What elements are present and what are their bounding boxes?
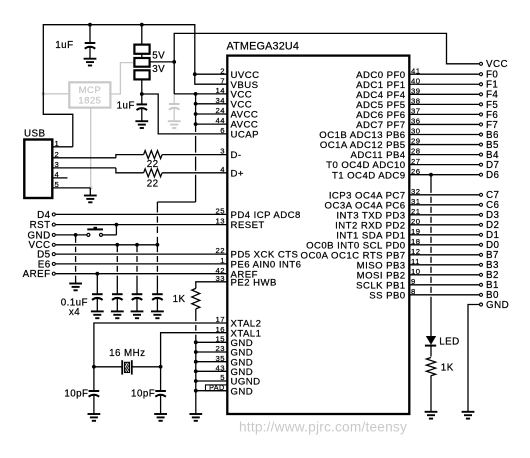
ground GND breakout [69, 283, 82, 285]
svg-text:1K: 1K [441, 363, 454, 374]
pin 31 OC3A OC4A PC6 U1 / node C6 [409, 204, 479, 206]
wire XTAL2 [94, 323, 227, 367]
wire MCP1825 VIN (ghost) [43, 93, 69, 95]
wire stub 24 [196, 113, 228, 115]
svg-text:GND: GND [231, 386, 254, 397]
svg-text:9: 9 [411, 277, 416, 286]
svg-text:1K: 1K [173, 294, 186, 305]
svg-text:5V: 5V [152, 50, 165, 61]
svg-text:28: 28 [411, 147, 420, 156]
node D5 breakout [52, 253, 55, 256]
LED D1 [426, 336, 436, 345]
ground C3 [91, 310, 104, 312]
node GND rail 43 [194, 369, 198, 373]
svg-text:PE2 HWB: PE2 HWB [231, 277, 277, 288]
svg-text:1825: 1825 [78, 95, 101, 106]
node GND rail 15 [194, 340, 198, 344]
pad 3V (bottom) [134, 70, 149, 79]
wire R3 top [196, 282, 228, 289]
svg-text:14: 14 [216, 86, 226, 95]
ground C8 [154, 413, 167, 415]
svg-text:20: 20 [411, 217, 420, 226]
ground C1 [84, 58, 97, 60]
wire D+ jog [116, 168, 144, 173]
svg-text:21: 21 [411, 207, 420, 216]
wire MCP1825 VOUT to 3V pad (ghost) [110, 63, 133, 94]
svg-text:http://www.pjrc.com/teensy: http://www.pjrc.com/teensy [239, 420, 407, 435]
svg-text:D-: D- [231, 150, 242, 161]
wire stub PAD [196, 390, 228, 392]
node rail 34 [194, 102, 198, 106]
pin 32 ICP3 OC4A PC7 U1 / node C7 [409, 194, 479, 196]
svg-text:37: 37 [411, 107, 420, 116]
node VCC cap2 tap [115, 243, 119, 247]
pin 29 OC1A ADC12 PB5 U1 / node B5 [409, 144, 479, 146]
wire VCC row left [56, 244, 158, 246]
node MCP VIN tap (ghost) [42, 92, 46, 96]
wire UCAP [142, 94, 228, 134]
pin 18 OC0B INT0 SCL PD0 U1 / node D0 [409, 244, 479, 246]
svg-text:10pF: 10pF [64, 389, 88, 400]
node XTAL1 junction [159, 365, 163, 369]
resistor R3 1K [192, 288, 200, 309]
ground C6 [151, 310, 164, 312]
node VCC cap3 tap [135, 243, 139, 247]
wire stub 43 [196, 370, 228, 372]
wire 5V pad lead [141, 25, 143, 45]
capacitor C6 0.1uF [152, 293, 163, 295]
wire VCC output [150, 61, 175, 63]
svg-text:1uF: 1uF [117, 101, 135, 112]
wire GND row [56, 234, 87, 236]
ground LED chain [425, 411, 438, 413]
svg-text:26: 26 [411, 167, 420, 176]
node AREF cap tap [95, 272, 99, 276]
svg-text:RESET: RESET [231, 220, 265, 231]
svg-text:41: 41 [411, 66, 420, 75]
node GND breakout [52, 233, 55, 236]
pin PAD GND U1 [206, 385, 228, 391]
wire stub 34 [196, 103, 228, 105]
svg-text:44: 44 [216, 116, 226, 125]
svg-text:MCP: MCP [79, 85, 102, 96]
ground C4 [111, 310, 124, 312]
svg-text:18: 18 [411, 237, 420, 246]
svg-text:40: 40 [411, 76, 420, 85]
capacitor C3 0.1uF [92, 293, 103, 295]
node C2 junction [140, 92, 144, 96]
resistor R2 22 [144, 169, 163, 177]
wire VCC rail [195, 94, 197, 132]
svg-text:D+: D+ [231, 168, 244, 179]
wire GND rail [195, 342, 197, 414]
wire VCC riser [156, 202, 158, 212]
svg-text:7: 7 [220, 76, 225, 85]
svg-text:VCC: VCC [486, 59, 508, 70]
pad 5V (top) [134, 45, 149, 54]
node D4 breakout [52, 213, 55, 216]
pin 19 INT1 SDA PD1 U1 / node D1 [409, 234, 479, 236]
pin 39 ADC4 PF4 U1 / node F4 [409, 93, 479, 95]
svg-text:22: 22 [147, 159, 159, 170]
wire GND drop [75, 235, 77, 243]
node VCC cap4 tap [156, 243, 160, 247]
node rail 44 [194, 122, 198, 126]
node D6 tap [429, 173, 433, 177]
wire VCC rail jog [157, 201, 195, 203]
svg-text:24: 24 [216, 106, 226, 115]
wire D4 [56, 213, 228, 215]
node GND drop tap [74, 233, 78, 237]
svg-text:29: 29 [411, 137, 420, 146]
capacitor C2 1uF [137, 103, 148, 105]
ground GND rail [189, 413, 202, 415]
svg-text:T1 OC4D ADC9: T1 OC4D ADC9 [332, 170, 406, 181]
svg-text:3: 3 [220, 147, 225, 156]
svg-text:ATMEGA32U4: ATMEGA32U4 [227, 41, 300, 53]
pin 38 ADC5 PF5 U1 / node F5 [409, 103, 479, 105]
svg-text:D6: D6 [486, 170, 500, 181]
pin 20 INT2 RXD PD2 U1 / node D2 [409, 224, 479, 226]
pin 11 MISO PB3 U1 / node B3 [409, 264, 479, 266]
pad common (middle) [134, 58, 149, 67]
svg-text:4: 4 [220, 165, 225, 174]
wire stub 35 [196, 361, 228, 363]
pin 26 T1 OC4D ADC9 U1 / node D6 [409, 174, 479, 176]
svg-text:30: 30 [411, 127, 420, 136]
wire cap C6 lead [156, 245, 158, 252]
svg-text:8: 8 [411, 287, 416, 296]
node E6 breakout [52, 262, 55, 265]
wire D- jog [116, 155, 144, 158]
wire pad link [141, 54, 143, 58]
node VCC breakout left [52, 243, 55, 246]
svg-text:UCAP: UCAP [231, 129, 259, 140]
node RST button tap [115, 223, 119, 227]
svg-text:10: 10 [411, 267, 420, 276]
wire cap C3 lead [96, 274, 98, 295]
pin 37 ADC6 PF6 U1 / node F6 [409, 113, 479, 115]
svg-text:22: 22 [147, 178, 159, 189]
VCC breakout circle [480, 62, 483, 65]
node UVCC tap [193, 72, 197, 76]
svg-text:AREF: AREF [23, 269, 51, 280]
ground C2 [135, 120, 148, 122]
wire VCC up-over [174, 33, 479, 94]
svg-text:1uF: 1uF [55, 40, 73, 51]
capacitor C8 10pF [160, 367, 162, 391]
op-amp U1 ATMEGA32U4 body [227, 56, 409, 414]
wire XTAL1 [161, 333, 228, 367]
capacitor C7 10pF [93, 367, 95, 391]
svg-text:USB: USB [24, 128, 46, 139]
svg-text:6: 6 [220, 126, 225, 135]
wire R3 bottom [195, 309, 197, 321]
wire E6 [56, 263, 228, 265]
svg-text:34: 34 [216, 96, 226, 105]
node MCP GND junction (ghost) [89, 186, 93, 190]
wire stub 5 [196, 380, 228, 382]
pin 41 ADC0 PF0 U1 / node F0 [409, 73, 479, 75]
wire MCP1825 GND (ghost) [90, 108, 92, 188]
crystal Y1 16MHz [94, 366, 122, 368]
pin 27 T0 OC4D ADC10 U1 / node D7 [409, 164, 479, 166]
node RST breakout [52, 223, 55, 226]
wire D5 [56, 253, 228, 255]
capacitor C5 0.1uF [132, 293, 143, 295]
node rail 24 [194, 112, 198, 116]
wire cap C4 lead [116, 245, 118, 252]
node GND breakout right [480, 303, 483, 306]
pushbutton S1 reset [87, 233, 90, 236]
svg-text:10pF: 10pF [131, 389, 155, 400]
pin 12 OC0A OC1C RTS PB7 U1 / node B7 [409, 254, 479, 256]
svg-text:36: 36 [411, 117, 420, 126]
svg-text:x4: x4 [69, 307, 80, 318]
wire stub 23 [196, 351, 228, 353]
svg-text:12: 12 [411, 247, 420, 256]
pin 40 ADC1 PF1 U1 / node F1 [409, 83, 479, 85]
wire stub 44 [196, 123, 228, 125]
wire cap C5 lead [136, 245, 138, 252]
svg-text:SS PB0: SS PB0 [369, 290, 405, 301]
svg-text:3V: 3V [152, 64, 165, 75]
node XTAL2 junction [92, 365, 96, 369]
node GND rail 35 [194, 360, 198, 364]
node GND rail 23 [194, 350, 198, 354]
svg-text:31: 31 [411, 197, 420, 206]
svg-text:19: 19 [411, 227, 420, 236]
node GND rail 5 [194, 379, 198, 383]
resistor R1 22 [144, 151, 163, 159]
node VCC rail top [194, 92, 198, 96]
wire GND breakout [468, 305, 479, 412]
wire 3V pad lead [141, 79, 143, 94]
pin 36 ADC7 PF7 U1 / node F7 [409, 123, 479, 125]
pin 8 SS PB0 U1 / node B0 [409, 294, 479, 296]
svg-text:38: 38 [411, 96, 420, 105]
svg-text:16 MHz: 16 MHz [109, 348, 145, 359]
wire stub 15 [196, 341, 228, 343]
wire RST [56, 224, 228, 226]
wire LED rail [430, 175, 432, 193]
regulator U2 MCP1825 (ghost) [69, 82, 110, 107]
pin 10 MOSI PB2 U1 / node B2 [409, 274, 479, 276]
svg-text:LED: LED [439, 336, 459, 347]
capacitor C4 0.1uF [112, 293, 123, 295]
node VBUS cap tap [88, 23, 92, 27]
pin 28 ADC11 PB4 U1 / node B4 [409, 154, 479, 156]
pin 9 SCLK PB1 U1 / node B1 [409, 284, 479, 286]
pin 30 OC1B ADC13 PB6 U1 / node B6 [409, 134, 479, 136]
wire UVCC stub [195, 73, 228, 75]
svg-text:39: 39 [411, 86, 420, 95]
wire VCC row14 [174, 93, 227, 95]
svg-text:GND: GND [486, 300, 509, 311]
wire LED to R4 [430, 346, 432, 357]
svg-text:32: 32 [411, 187, 420, 196]
resistor R4 1K [426, 358, 435, 376]
wire R4 to ground [430, 376, 432, 412]
wire D+ to pin4 [162, 172, 227, 174]
ground GND breakout right [462, 411, 475, 413]
node R3 to GND rail [194, 340, 198, 344]
ground USB shell [89, 188, 91, 196]
node GND rail PAD [194, 389, 198, 393]
ground C7 [88, 413, 101, 415]
node AREF breakout [52, 272, 55, 275]
wire D- to pin3 [162, 154, 227, 156]
capacitor C1 1uF VBUS [89, 25, 91, 43]
wire AREF [56, 273, 228, 275]
ground C5 [131, 310, 144, 312]
svg-text:11: 11 [411, 257, 420, 266]
connector USB [24, 140, 52, 199]
node 5V pad tap [140, 23, 144, 27]
pin 21 INT3 TXD PD3 U1 / node D3 [409, 214, 479, 216]
svg-text:27: 27 [411, 157, 420, 166]
node VCC output [172, 60, 176, 64]
wire VBUS top rail [43, 25, 227, 147]
capacitor ghost VCC bypass (gray) [173, 94, 175, 104]
svg-text:2: 2 [220, 66, 225, 75]
